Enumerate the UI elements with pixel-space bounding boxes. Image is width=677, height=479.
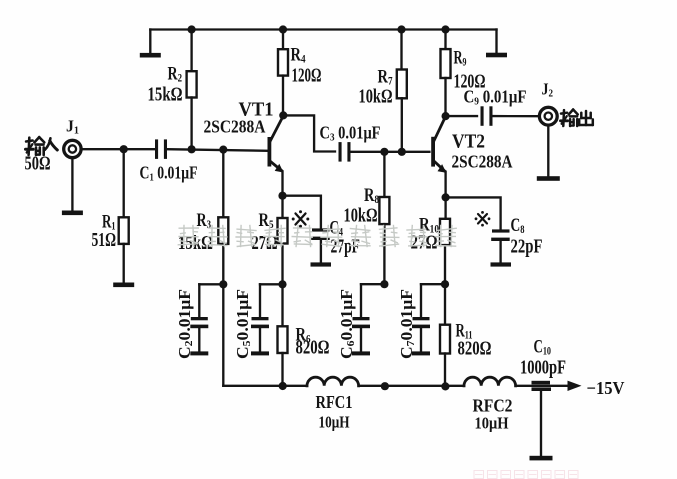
resistor R4 bbox=[278, 49, 288, 75]
wire emitter node to C4 bbox=[283, 196, 321, 229]
wire R8 to node C bbox=[383, 224, 385, 284]
transistor VT1 bbox=[268, 137, 272, 167]
label 输入 (input) bbox=[26, 137, 45, 155]
wire collector to C9 bbox=[446, 115, 477, 117]
svg-text:C3 0.01μF: C3 0.01μF bbox=[320, 123, 381, 144]
inductor RFC2 bbox=[464, 377, 516, 386]
capacitor C5 bbox=[259, 284, 261, 317]
transistor VT2 bbox=[431, 137, 435, 167]
resistor R10 bbox=[440, 219, 450, 245]
svg-text:820Ω: 820Ω bbox=[458, 338, 492, 360]
resistor R11 bbox=[440, 325, 450, 354]
wire rail to R7 bbox=[400, 30, 402, 70]
ground below R1 bbox=[123, 244, 125, 283]
wire emitter node to R5 bbox=[281, 196, 283, 218]
svg-text:22pF: 22pF bbox=[511, 236, 543, 258]
watermark (decorative) bbox=[178, 225, 199, 247]
svg-text:10μH: 10μH bbox=[319, 413, 350, 432]
wire node D to C7 bbox=[421, 283, 445, 285]
label ※ (C8 selected) bbox=[475, 211, 491, 227]
svg-text:820Ω: 820Ω bbox=[296, 337, 330, 359]
svg-text:C9 0.01μF: C9 0.01μF bbox=[464, 87, 527, 108]
wire emitter node to C8 bbox=[446, 197, 501, 229]
svg-text:−15V: −15V bbox=[587, 378, 625, 398]
junction bottom rail / R11 bbox=[441, 382, 449, 390]
junction VT1 collector node bbox=[279, 111, 287, 119]
resistor R5 bbox=[278, 218, 288, 244]
wire VT2 emitter down bbox=[444, 172, 446, 198]
svg-text:C1 0.01μF: C1 0.01μF bbox=[140, 163, 198, 184]
wire input node to R1 bbox=[123, 149, 125, 217]
capacitor C8 bbox=[492, 229, 510, 232]
junction input / R2 bbox=[188, 145, 196, 153]
capacitor C6 bbox=[360, 284, 362, 317]
wire emitter node to R10 bbox=[444, 197, 446, 218]
wire node D to R11 bbox=[444, 284, 446, 325]
resistor R1 bbox=[119, 217, 129, 244]
wire node A to bottom rail left end bbox=[222, 284, 224, 386]
junction node A bbox=[219, 280, 227, 288]
wire rail to R2 bbox=[190, 30, 192, 72]
junction top rail / R2 bbox=[188, 25, 196, 33]
wire C9 to J2 bbox=[493, 115, 540, 117]
junction VT1 emitter node bbox=[278, 192, 286, 200]
label 输出 (output) bbox=[561, 110, 578, 127]
junction VT2 base / R7 bbox=[398, 148, 406, 156]
wire rail to R4 bbox=[282, 30, 284, 50]
label ※ (C4 selected) bbox=[292, 210, 310, 227]
inductor RFC1 bbox=[307, 377, 359, 386]
wire R3 to bypass node A bbox=[222, 244, 224, 284]
wire C1 to VT1 base bbox=[167, 149, 268, 151]
wire input node to R3 bbox=[222, 150, 224, 218]
svg-text:C50.01μF: C50.01μF bbox=[233, 289, 253, 359]
junction bottom rail / R8 bbox=[381, 382, 389, 390]
svg-text:10kΩ: 10kΩ bbox=[359, 86, 393, 108]
wire R10 to node D bbox=[444, 245, 446, 284]
wire node A to C2 bbox=[199, 283, 223, 285]
svg-text:RFC1: RFC1 bbox=[316, 392, 353, 412]
supply arrow -15V bbox=[568, 381, 582, 391]
wire R5 to bypass node B bbox=[281, 244, 283, 285]
wire R4 to VT1 collector bbox=[282, 76, 284, 116]
wire R2 to input node bbox=[190, 98, 192, 150]
connector J2 bbox=[539, 107, 557, 125]
junction node C bbox=[380, 280, 388, 288]
capacitor C2 bbox=[198, 284, 200, 317]
svg-text:10μH: 10μH bbox=[475, 414, 509, 433]
junction bottom rail / R6 bbox=[279, 382, 287, 390]
ground top-right bbox=[495, 30, 497, 53]
junction node B bbox=[278, 280, 286, 288]
junction VT2 collector node bbox=[442, 112, 450, 120]
capacitor C10 bbox=[532, 381, 551, 385]
junction VT2 base / R8 bbox=[380, 148, 388, 156]
resistor R7 bbox=[397, 70, 407, 99]
wire R9 to VT2 collector bbox=[444, 78, 446, 116]
resistor R6 bbox=[278, 326, 288, 353]
svg-text:C20.01μF: C20.01μF bbox=[175, 289, 195, 359]
junction top rail / R7 bbox=[397, 25, 405, 33]
wire bottom rail right segment to -15V bbox=[516, 385, 567, 387]
capacitor C7 bbox=[420, 284, 422, 317]
wire collector node to C3 bbox=[283, 115, 335, 151]
junction node D bbox=[441, 280, 449, 288]
capacitor C3 bbox=[339, 142, 342, 162]
svg-text:51Ω: 51Ω bbox=[92, 229, 117, 251]
wire rail to R9 bbox=[444, 30, 446, 50]
ground below J1 bbox=[71, 158, 73, 211]
wire node B to C5 bbox=[260, 283, 283, 285]
svg-text:2SC288A: 2SC288A bbox=[452, 152, 513, 172]
wire bottom rail middle segment bbox=[359, 385, 464, 387]
svg-text:VT2: VT2 bbox=[452, 132, 485, 153]
resistor R3 bbox=[218, 217, 228, 244]
junction top rail / R4 bbox=[279, 25, 287, 33]
capacitor C9 bbox=[481, 106, 484, 126]
wire VT1 emitter down bbox=[281, 172, 283, 196]
svg-text:1000pF: 1000pF bbox=[520, 357, 566, 379]
junction input / R1 bbox=[120, 145, 128, 153]
svg-text:120Ω: 120Ω bbox=[292, 65, 322, 87]
wire R7 to VT2 base node bbox=[401, 98, 403, 152]
resistor R8 bbox=[379, 197, 389, 224]
resistor R9 bbox=[441, 49, 451, 78]
wire R11 to bottom rail bbox=[444, 354, 446, 387]
svg-text:RFC2: RFC2 bbox=[473, 396, 513, 416]
svg-text:27Ω: 27Ω bbox=[252, 232, 278, 254]
capacitor C4 bbox=[312, 228, 330, 231]
connector J1 bbox=[64, 140, 81, 157]
junction top rail / R9 bbox=[441, 25, 449, 33]
resistor R2 bbox=[187, 71, 197, 97]
wire node C to C6 bbox=[361, 283, 384, 285]
wire node B to R6 bbox=[281, 284, 283, 326]
svg-text:C60.01μF: C60.01μF bbox=[337, 289, 357, 359]
wire base node to R8 bbox=[383, 152, 385, 197]
svg-text:10kΩ: 10kΩ bbox=[344, 205, 378, 227]
wire top supply rail bbox=[150, 28, 496, 30]
wire bottom rail left segment bbox=[223, 385, 307, 387]
svg-text:C70.01μF: C70.01μF bbox=[397, 289, 417, 359]
ground below J2 bbox=[547, 125, 549, 176]
junction VT2 emitter node bbox=[442, 193, 450, 201]
ground top-left bbox=[149, 30, 151, 53]
watermark bottom (decorative) bbox=[474, 471, 578, 479]
junction input / R3 bbox=[219, 146, 227, 154]
capacitor C1 bbox=[155, 139, 158, 159]
svg-text:2SC288A: 2SC288A bbox=[204, 117, 266, 137]
svg-text:15kΩ: 15kΩ bbox=[148, 84, 183, 106]
wire C3 to VT2 base bbox=[351, 151, 430, 153]
wire R6 to bottom rail bbox=[281, 353, 283, 386]
wire J1 to C1 bbox=[81, 148, 155, 150]
